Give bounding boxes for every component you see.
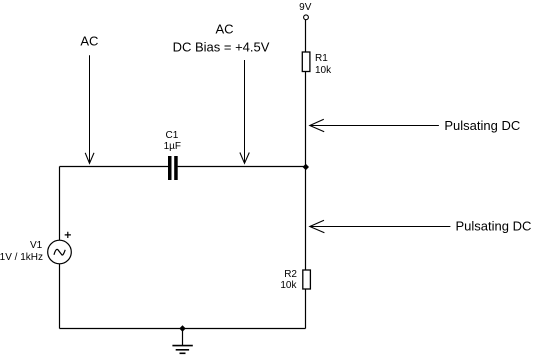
svg-text:9V: 9V — [299, 2, 312, 13]
svg-text:Pulsating DC: Pulsating DC — [456, 219, 532, 234]
svg-text:DC Bias = +4.5V: DC Bias = +4.5V — [173, 39, 270, 54]
svg-text:1V / 1kHz: 1V / 1kHz — [0, 252, 43, 263]
svg-text:R1: R1 — [315, 53, 328, 64]
svg-text:C1: C1 — [166, 130, 179, 141]
svg-text:V1: V1 — [30, 240, 43, 251]
svg-text:R2: R2 — [284, 269, 297, 280]
svg-text:AC: AC — [80, 34, 98, 49]
svg-text:AC: AC — [215, 21, 233, 36]
svg-text:1µF: 1µF — [164, 141, 181, 152]
svg-text:10k: 10k — [280, 280, 297, 291]
svg-text:10k: 10k — [315, 65, 332, 76]
svg-text:Pulsating DC: Pulsating DC — [444, 118, 520, 133]
